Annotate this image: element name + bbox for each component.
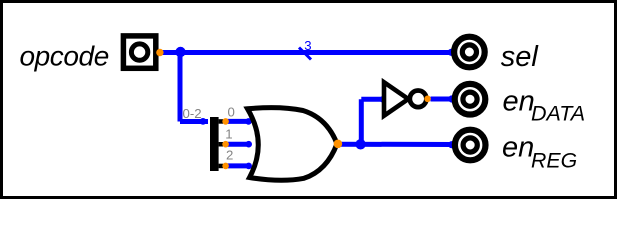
svg-text:en: en — [503, 86, 535, 118]
splitter stub1 port dot — [222, 141, 229, 148]
splitter bar — [210, 117, 219, 171]
input pin opcode: square — [123, 36, 155, 68]
svg-text:0: 0 — [228, 104, 235, 119]
output pin sel — [454, 37, 485, 68]
wire splitter bit1 to OR — [226, 142, 249, 147]
wire opcode to sel (top row) — [160, 50, 452, 55]
svg-text:REG: REG — [531, 148, 577, 172]
node splitter input endpoint — [200, 118, 207, 125]
svg-text:2: 2 — [226, 147, 233, 162]
not-gate U2 triangle — [384, 82, 408, 116]
input pin opcode: port dot — [156, 49, 163, 56]
splitter stub0 port dot — [222, 118, 229, 125]
or-gate body — [248, 108, 338, 181]
splitter stub2 port dot — [222, 163, 229, 170]
bus slash on top wire — [299, 48, 311, 60]
svg-text:0-2: 0-2 — [183, 106, 202, 121]
svg-text:sel: sel — [501, 41, 540, 73]
wire splitter bit2 to OR — [226, 163, 249, 168]
or-gate output dot — [334, 140, 343, 149]
wire to splitter — [180, 119, 208, 124]
node junction J1 — [175, 47, 185, 57]
input pin opcode: inner circle — [131, 44, 147, 60]
wire end dot at sel — [448, 49, 455, 56]
svg-text:DATA: DATA — [531, 101, 585, 125]
splitter stub 1 — [219, 142, 223, 147]
svg-text:1: 1 — [225, 126, 232, 141]
svg-text:3: 3 — [304, 38, 311, 53]
splitter stub 2 — [219, 164, 223, 169]
wire junction1 down — [178, 53, 183, 122]
svg-text:opcode: opcode — [20, 40, 109, 71]
wire splitter bit0 to OR — [226, 119, 249, 124]
wire NOT output to en_DATA — [431, 97, 452, 102]
wire OR output to en_REG — [339, 142, 452, 147]
output pin en_REG — [455, 130, 486, 161]
wire junction2 up to NOT row — [359, 99, 364, 144]
splitter stub 0 — [219, 119, 223, 124]
not-gate output dot — [424, 96, 431, 103]
wire to NOT gate — [361, 97, 383, 102]
output pin en_DATA — [455, 84, 486, 115]
not-gate bubble — [410, 91, 427, 108]
node junction J2 — [355, 139, 365, 149]
svg-text:en: en — [502, 131, 534, 163]
